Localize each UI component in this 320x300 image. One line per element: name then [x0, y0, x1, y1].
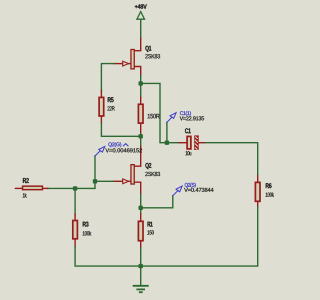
wire R5 top lead [100, 91, 102, 97]
resistor R6 100k [255, 182, 274, 201]
wire R3 to bottom rail [75, 247, 141, 267]
wire Q1 drain lead [135, 39, 141, 51]
wire R3 top [74, 188, 76, 214]
wire R1 top lead [140, 214, 142, 220]
wire R1 bottom lead [140, 241, 142, 248]
resistor R2 1k [15, 178, 47, 197]
wire R3 bottom lead [74, 240, 76, 247]
wire Q1 gate to R5 column [101, 64, 114, 91]
transistor Q2 2SK83 [113, 163, 160, 194]
node Q2 source junction [139, 206, 143, 210]
resistor R1 150 [138, 221, 153, 240]
wire R6 top lead [257, 176, 259, 182]
wire Q2 gate green [95, 180, 113, 182]
wire Q1 source green [140, 76, 142, 84]
wire R3 top lead [74, 214, 76, 219]
node ground junction [139, 264, 143, 268]
wire R6 bottom lead [257, 202, 259, 207]
wire source node to output column [141, 83, 167, 142]
node gate junction [93, 179, 97, 183]
wire C1 right lead [199, 142, 206, 144]
voltage probe C1(1) [167, 111, 204, 122]
wire gate node to R2 rail [48, 181, 95, 188]
wire 150R to bias node [140, 134, 142, 136]
wire Q2 source green [140, 194, 142, 207]
power terminal +48V [135, 4, 147, 19]
wire R5 to bias node [101, 123, 140, 137]
resistor R5 22R [99, 97, 114, 116]
ground [134, 266, 148, 292]
voltage probe Q2(G) [95, 142, 142, 156]
wire C1 to R6 column [206, 143, 258, 176]
wire bias node down [140, 136, 142, 146]
wire source node to probe Q2(S) [141, 196, 173, 208]
wire C1 left lead [167, 142, 179, 144]
wire R1 to ground node [140, 248, 142, 266]
node Q1 source junction [139, 81, 143, 85]
wire 150R top lead [140, 97, 142, 103]
node C1 output junction [165, 141, 169, 145]
transistor Q1 2SK83 [114, 46, 160, 76]
wire probe stub C1(1) [166, 122, 168, 142]
wire probe stub Q2(G) [94, 156, 96, 181]
node R2/R3 junction [73, 186, 77, 190]
wire R1 top [140, 208, 142, 215]
node bias junction [139, 134, 143, 138]
resistor R3 100k [73, 221, 92, 239]
voltage probe Q2(S) [173, 183, 214, 196]
wire R5 bottom lead [100, 117, 102, 123]
wire 150R bottom lead [140, 124, 142, 134]
wire power stem [140, 20, 142, 39]
capacitor C1 10u electrolytic [185, 128, 199, 155]
resistor 150R [138, 104, 159, 123]
wire Q2 drain lead [135, 147, 141, 167]
wire R6 to bottom rail [141, 207, 258, 266]
wire source node down to 150R [140, 83, 142, 97]
